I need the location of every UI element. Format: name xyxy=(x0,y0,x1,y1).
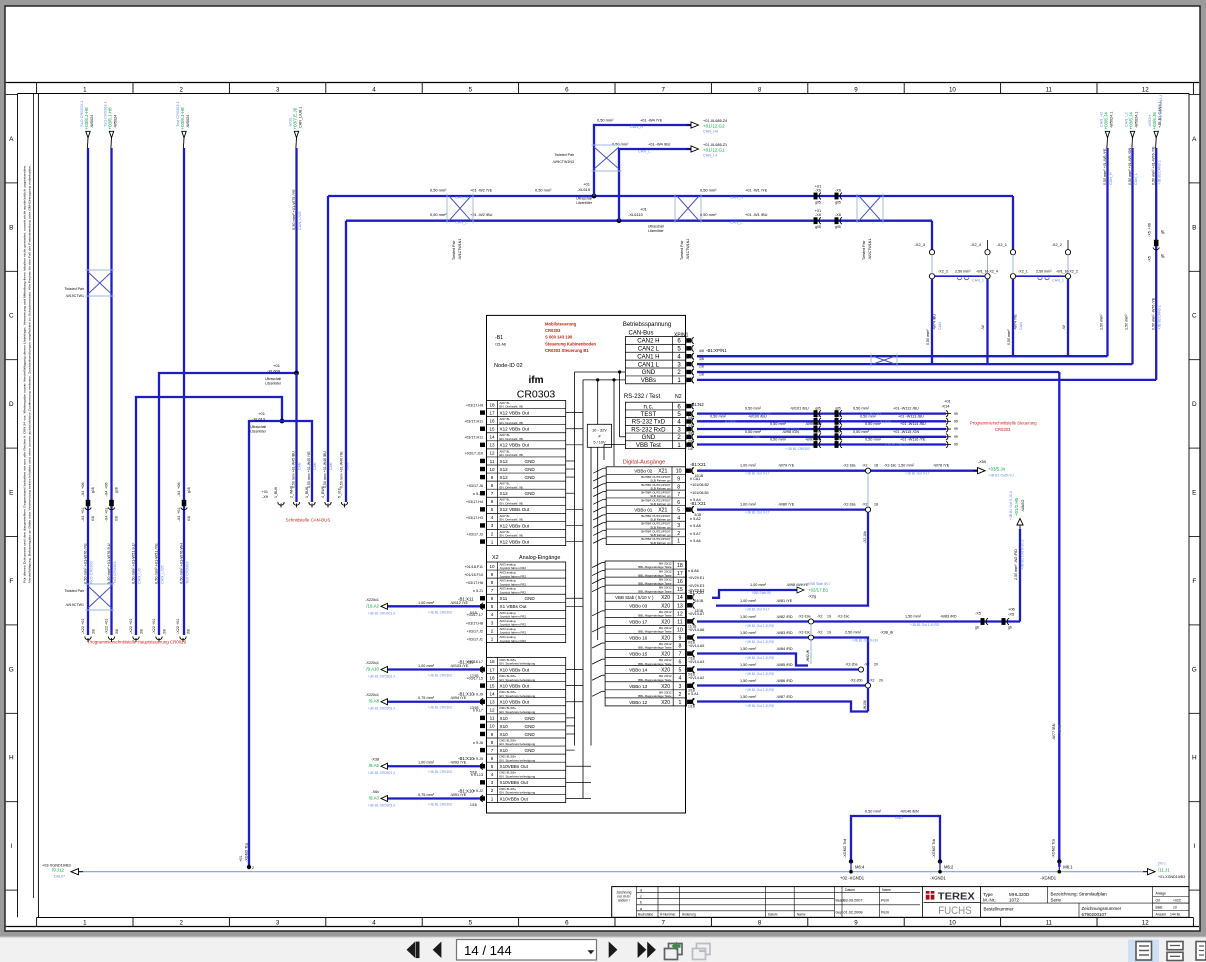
svg-text:5/1B: 5/1B xyxy=(470,771,478,775)
svg-text:I: I xyxy=(1193,843,1195,850)
svg-text:-X5: -X5 xyxy=(975,612,981,616)
svg-text:1072: 1072 xyxy=(1009,897,1020,902)
svg-text:+01 -W4 /BU: +01 -W4 /BU xyxy=(648,142,671,147)
svg-text:0,50 mm² -W76 /YE: 0,50 mm² -W76 /YE xyxy=(1152,297,1156,330)
svg-text:8: 8 xyxy=(491,740,494,745)
svg-text:+03/17.J3: +03/17.J3 xyxy=(467,532,483,536)
svg-text:2: 2 xyxy=(491,628,494,633)
svg-text:4: 4 xyxy=(491,515,494,520)
svg-text:+01: +01 xyxy=(152,619,156,625)
svg-text:/19.A2: /19.A2 xyxy=(366,603,379,608)
svg-text:+01/2.H5: +01/2.H5 xyxy=(1014,497,1019,516)
svg-text:+03/17.H8: +03/17.H8 xyxy=(466,621,483,625)
svg-text:X10 VBBs Out: X10 VBBs Out xyxy=(500,684,530,689)
svg-text:BBL Magnetanlage Taste: BBL Magnetanlage Taste xyxy=(638,646,672,650)
svg-text:CAN: CAN xyxy=(1019,322,1023,330)
svg-text:-X4: -X4 xyxy=(105,491,109,497)
svg-text:15: 15 xyxy=(489,683,495,688)
svg-text:+0V14.A3: +0V14.A3 xyxy=(688,660,704,664)
svg-text:+06: +06 xyxy=(81,483,85,489)
svg-text:X20: X20 xyxy=(661,635,670,641)
svg-text:EN. Drehzahl. I/B.: EN. Drehzahl. I/B. xyxy=(500,534,524,538)
svg-text:1,50 mm²: 1,50 mm² xyxy=(740,695,757,699)
svg-text:14/1B: 14/1B xyxy=(695,599,704,603)
svg-text:CAN_L: CAN_L xyxy=(730,220,743,225)
svg-text:-W5024: -W5024 xyxy=(186,115,190,128)
svg-text:CR0303: CR0303 xyxy=(545,328,561,333)
svg-text:FUCHS: FUCHS xyxy=(938,905,972,917)
svg-text:I: I xyxy=(10,843,12,850)
svg-text:EN. Drehzahl. I/B.: EN. Drehzahl. I/B. xyxy=(500,453,524,457)
svg-text:99: 99 xyxy=(954,420,958,424)
svg-text:17: 17 xyxy=(489,667,495,672)
svg-text:4: 4 xyxy=(678,676,681,682)
svg-text:0,50 mm² +01-W76 /YE: 0,50 mm² +01-W76 /YE xyxy=(83,543,88,584)
svg-text:Anzahl: Anzahl xyxy=(1156,912,1167,916)
svg-text:-W81 /YE: -W81 /YE xyxy=(776,599,793,603)
svg-text:4: 4 xyxy=(491,612,494,617)
svg-text:/9.A3: /9.A3 xyxy=(369,795,380,800)
svg-text:[X0.]: [X0.] xyxy=(1158,862,1165,866)
svg-text:1: 1 xyxy=(677,539,680,545)
svg-text:B: B xyxy=(1192,224,1196,231)
svg-text:+0V29.E3: +0V29.E3 xyxy=(688,589,704,593)
svg-text:+03/17.J2: +03/17.J2 xyxy=(467,629,483,633)
svg-text:10: 10 xyxy=(1173,906,1177,910)
svg-text:VBBo 14: VBBo 14 xyxy=(629,668,648,673)
svg-text:g6: g6 xyxy=(1161,230,1165,234)
svg-text:Ultraschall: Ultraschall xyxy=(265,377,281,381)
svg-text:F: F xyxy=(1192,578,1196,585)
svg-text:C: C xyxy=(9,313,14,320)
svg-text:Für dieses Dokument und den da: Für dieses Dokument und den dargestellte… xyxy=(23,165,27,583)
svg-text:0,50 mm² +01-W45 /BU: 0,50 mm² +01-W45 /BU xyxy=(292,451,296,488)
svg-text:1,50 mm²: 1,50 mm² xyxy=(898,464,915,468)
svg-text:1,00 mm²: 1,00 mm² xyxy=(418,601,435,605)
svg-text:3/8: 3/8 xyxy=(163,629,167,634)
svg-text:-XGND1: -XGND1 xyxy=(1040,876,1056,881)
svg-text:D: D xyxy=(9,401,14,408)
svg-text:0,50 mm²: 0,50 mm² xyxy=(926,329,930,345)
svg-text:7: 7 xyxy=(491,588,494,593)
svg-text:1,50 mm²: 1,50 mm² xyxy=(740,615,757,619)
svg-text:EN. Drehzahl. I/B.: EN. Drehzahl. I/B. xyxy=(500,421,524,425)
svg-text:1/1B: 1/1B xyxy=(470,803,478,807)
svg-text:b: b xyxy=(640,901,642,905)
svg-text:9: 9 xyxy=(491,572,494,577)
svg-text:X20: X20 xyxy=(661,619,670,625)
svg-text:+03/17.H3: +03/17.H3 xyxy=(466,516,483,520)
svg-text:X12 VBBs Out: X12 VBBs Out xyxy=(500,443,530,448)
svg-text:5 / 10V: 5 / 10V xyxy=(593,440,606,445)
svg-text:2: 2 xyxy=(179,87,183,94)
svg-text:1: 1 xyxy=(678,700,681,706)
svg-text:18: 18 xyxy=(874,503,878,507)
svg-text:+0V29.E3: +0V29.E3 xyxy=(688,584,704,588)
svg-text:-X6: -X6 xyxy=(835,189,841,193)
svg-text:BBL Magnetanlage Taste: BBL Magnetanlage Taste xyxy=(638,662,672,666)
svg-text:M.-Nr.:: M.-Nr.: xyxy=(983,897,997,902)
svg-text:-W74 /BU: -W74 /BU xyxy=(933,314,937,330)
svg-text:d: d xyxy=(640,889,642,893)
svg-text:2,50 mm²: 2,50 mm² xyxy=(1036,270,1052,274)
svg-text:EN. Stoerkreis befestigung: EN. Stoerkreis befestigung xyxy=(500,710,536,714)
svg-text:g6: g6 xyxy=(975,626,979,630)
svg-text:-W112 /YE: -W112 /YE xyxy=(450,601,469,605)
svg-text:B1 TEST: B1 TEST xyxy=(786,427,799,431)
svg-text:g08: g08 xyxy=(91,487,95,493)
svg-text:X12 VBBs Out: X12 VBBs Out xyxy=(500,523,530,528)
svg-text:+03/17.H4: +03/17.H4 xyxy=(466,500,483,504)
svg-text:0,50 mm² +01-W46 /YE: 0,50 mm² +01-W46 /YE xyxy=(340,451,344,488)
svg-text:GND: GND xyxy=(525,459,536,464)
svg-text:a: a xyxy=(640,907,642,911)
svg-text:VBB Test: VBB Test xyxy=(636,442,661,449)
svg-text:2: 2 xyxy=(677,531,680,537)
svg-text:9: 9 xyxy=(678,635,681,641)
svg-text:0,50 mm² +01-W45 /YE: 0,50 mm² +01-W45 /YE xyxy=(307,451,311,488)
svg-text:Ultraschall: Ultraschall xyxy=(576,197,592,201)
svg-text:/9.A5: /9.A5 xyxy=(369,763,380,768)
svg-text:+03/6.J-H8: +03/6.J-H8 xyxy=(84,107,89,130)
svg-text:Anlage: Anlage xyxy=(1156,892,1167,896)
svg-text:16: 16 xyxy=(489,418,495,423)
svg-text:1,00 mm²: 1,00 mm² xyxy=(418,664,435,668)
svg-text:-X2-18b: -X2-18b xyxy=(863,531,867,543)
svg-text:3/8: 3/8 xyxy=(699,357,704,361)
svg-text:7: 7 xyxy=(491,748,494,753)
svg-text:99: 99 xyxy=(954,412,958,416)
svg-text:CAN_1: CAN_1 xyxy=(1052,279,1064,283)
svg-text:144 Bl.: 144 Bl. xyxy=(1170,912,1181,916)
svg-text:10: 10 xyxy=(677,627,683,633)
svg-text:5: 5 xyxy=(678,668,681,674)
svg-text:0,50 mm²: 0,50 mm² xyxy=(710,414,727,418)
svg-text:12: 12 xyxy=(489,451,495,456)
svg-text:n 8.A6: n 8.A6 xyxy=(688,569,699,573)
svg-text:Petri: Petri xyxy=(881,899,889,903)
svg-text:-X22: -X22 xyxy=(81,626,85,634)
svg-text:-X4: -X4 xyxy=(81,516,85,522)
svg-text:B1 TxD: B1 TxD xyxy=(760,412,772,416)
svg-text:+03/6.J-H8: +03/6.J-H8 xyxy=(107,107,112,130)
svg-text:G: G xyxy=(9,666,14,673)
svg-text:0,50 mm²: 0,50 mm² xyxy=(853,407,870,411)
svg-text:3: 3 xyxy=(678,684,681,690)
svg-text:-W5024: -W5024 xyxy=(90,115,94,128)
svg-text:13: 13 xyxy=(677,603,683,609)
svg-text:2: 2 xyxy=(491,531,494,536)
svg-text:5: 5 xyxy=(491,604,494,609)
svg-text:g05: g05 xyxy=(835,414,841,418)
svg-text:Ä-Nummer: Ä-Nummer xyxy=(660,913,676,917)
svg-text:Schnittstelle CAN-BUS: Schnittstelle CAN-BUS xyxy=(286,518,331,523)
svg-text:GND: GND xyxy=(525,596,536,601)
svg-text:1,00 mm²: 1,00 mm² xyxy=(740,464,757,468)
svg-text:B1 RxD: B1 RxD xyxy=(880,420,892,424)
svg-text:+JB B1 Out 1-8 /RD: +JB B1 Out 1-8 /RD xyxy=(745,688,775,692)
svg-text:3: 3 xyxy=(276,87,280,94)
svg-text:DAL07: DAL07 xyxy=(54,875,65,879)
svg-text:-X2-18c: -X2-18c xyxy=(884,464,897,468)
svg-text:14: 14 xyxy=(677,595,683,601)
svg-text:1: 1 xyxy=(83,920,87,927)
svg-text:+01: +01 xyxy=(176,619,180,625)
svg-text:-X2-19c: -X2-19c xyxy=(837,615,850,619)
svg-text:C: C xyxy=(1192,313,1197,320)
svg-text:+JB B1 Out 9-17: +JB B1 Out 9-17 xyxy=(905,472,930,476)
svg-text:+JB B1CAN3.1: +JB B1CAN3.1 xyxy=(1158,305,1162,330)
svg-text:+01: +01 xyxy=(177,508,181,514)
svg-text:+01 -W1 /YE: +01 -W1 /YE xyxy=(745,188,768,193)
svg-text:8: 8 xyxy=(677,484,680,490)
svg-text:+JB B1 CR0303: +JB B1 CR0303 xyxy=(428,706,452,710)
svg-text:10: 10 xyxy=(676,469,682,475)
svg-text:+JB B1 Out 9-17: +JB B1 Out 9-17 xyxy=(745,608,770,612)
svg-text:n 5.J1: n 5.J1 xyxy=(473,492,483,496)
svg-text:-B1:X10: -B1:X10 xyxy=(458,788,474,793)
svg-text:0,50 mm² +01-W5 /GN: 0,50 mm² +01-W5 /GN xyxy=(1128,147,1132,185)
svg-text:1,50 mm²: 1,50 mm² xyxy=(1125,314,1129,330)
svg-text:3: 3 xyxy=(491,620,494,625)
svg-text:RxD CR0303: RxD CR0303 xyxy=(89,561,94,584)
svg-text:Twisted Pair: Twisted Pair xyxy=(452,240,456,260)
svg-text:+01-XL685.Z4: +01-XL685.Z4 xyxy=(703,119,727,123)
svg-text:-W1CTW1N1: -W1CTW1N1 xyxy=(458,239,462,260)
svg-text:H: H xyxy=(9,755,14,762)
svg-text:n 9.J6: n 9.J6 xyxy=(473,741,483,745)
svg-text:-W: -W xyxy=(981,325,985,330)
svg-text:CAN: CAN xyxy=(938,322,942,330)
svg-text:X12: X12 xyxy=(500,491,509,496)
svg-text:+03/17.H9: +03/17.H9 xyxy=(466,403,483,407)
svg-text:+01/12.G2: +01/12.G2 xyxy=(703,124,725,129)
svg-text:99: 99 xyxy=(954,443,958,447)
svg-text:18: 18 xyxy=(874,464,878,468)
svg-text:g08: g08 xyxy=(115,487,119,493)
svg-text:+JB B1 CR0303: +JB B1 CR0303 xyxy=(428,770,452,774)
svg-text:Joystick fahren FR2: Joystick fahren FR2 xyxy=(500,639,527,643)
svg-text:+01: +01 xyxy=(273,363,281,368)
svg-text:-XGND Tcd: -XGND Tcd xyxy=(843,839,847,858)
svg-text:VBBo 15: VBBo 15 xyxy=(629,652,648,657)
svg-text:14: 14 xyxy=(489,435,495,440)
svg-text:VBB Stab 5V.I: VBB Stab 5V.I xyxy=(808,582,830,586)
svg-text:+01/18.F11: +01/18.F11 xyxy=(465,565,484,569)
svg-text:-W94 /YE: -W94 /YE xyxy=(450,696,467,700)
svg-text:0,50 mm² +01-W75 /YE: 0,50 mm² +01-W75 /YE xyxy=(291,189,296,230)
svg-text:13: 13 xyxy=(489,443,495,448)
svg-text:3/8: 3/8 xyxy=(140,629,144,634)
svg-text:1,50 mm²: 1,50 mm² xyxy=(1100,314,1104,330)
svg-text:-B1: -B1 xyxy=(495,335,503,341)
svg-text:CR0303: CR0303 xyxy=(995,427,1011,432)
svg-text:XP/N1: XP/N1 xyxy=(674,332,689,338)
svg-text:-X55: -X55 xyxy=(978,460,986,464)
svg-text:-X4: -X4 xyxy=(177,491,181,497)
svg-text:1: 1 xyxy=(491,539,494,544)
svg-text:0,50 mm²: 0,50 mm² xyxy=(597,118,614,123)
svg-text:+06: +06 xyxy=(105,483,109,489)
svg-text:5: 5 xyxy=(677,508,680,514)
svg-text:EN. Drehzahl. I/B.: EN. Drehzahl. I/B. xyxy=(500,518,524,522)
svg-text:+JB B1 Out 6-10.2: +JB B1 Out 6-10.2 xyxy=(1021,540,1025,570)
svg-text:-X2_3: -X2_3 xyxy=(938,270,948,274)
svg-text:-X2_3: -X2_3 xyxy=(914,242,925,247)
svg-text:+03/6.J4: +03/6.J4 xyxy=(1103,112,1108,130)
svg-text:-X22: -X22 xyxy=(129,626,133,634)
svg-text:+03/17.J10: +03/17.J10 xyxy=(465,452,483,456)
svg-text:3/8: 3/8 xyxy=(92,629,96,634)
svg-text:3: 3 xyxy=(491,780,494,785)
svg-text:EN. Stoerkreis befestigung: EN. Stoerkreis befestigung xyxy=(500,774,536,778)
svg-text:n 5.J1: n 5.J1 xyxy=(473,589,483,593)
svg-text:CAN_1: CAN_1 xyxy=(972,279,984,283)
svg-text:VBBo 01: VBBo 01 xyxy=(634,508,653,513)
svg-text:-X2-19c: -X2-19c xyxy=(798,631,811,635)
svg-text:Type: Type xyxy=(983,892,993,897)
svg-text:g6: g6 xyxy=(1161,254,1165,258)
svg-text:Twisted Pair: Twisted Pair xyxy=(680,240,684,260)
svg-text:-W1_6r-X2_4: -W1_6r-X2_4 xyxy=(976,270,998,274)
svg-text:0,50 mm²: 0,50 mm² xyxy=(700,188,717,193)
svg-text:+06: +06 xyxy=(177,483,181,489)
svg-text:Twisted Pair: Twisted Pair xyxy=(554,153,574,157)
svg-text:-W80 /YE: -W80 /YE xyxy=(778,503,795,507)
svg-text:1,50 mm²: 1,50 mm² xyxy=(740,631,757,635)
svg-text:2: 2 xyxy=(491,788,494,793)
svg-text:1,00 mm²: 1,00 mm² xyxy=(740,599,757,603)
svg-text:-X220c1: -X220c1 xyxy=(365,598,379,602)
svg-text:-X4: -X4 xyxy=(105,516,109,522)
svg-text:8: 8 xyxy=(678,644,681,650)
svg-text:5: 5 xyxy=(491,507,494,512)
svg-text:g6: g6 xyxy=(1008,626,1012,630)
svg-text:12: 12 xyxy=(1142,920,1149,927)
svg-text:X21: X21 xyxy=(658,508,667,514)
svg-text:-X2_1: -X2_1 xyxy=(996,242,1007,247)
svg-text:0,50 mm²: 0,50 mm² xyxy=(1007,329,1011,345)
svg-text:+01/18.F10: +01/18.F10 xyxy=(464,573,483,577)
svg-text:CAN: CAN xyxy=(313,462,317,470)
svg-text:CAN_H: CAN_H xyxy=(455,195,468,200)
svg-text:+01 -W2 /YE: +01 -W2 /YE xyxy=(470,188,493,193)
svg-text:GND: GND xyxy=(642,434,656,441)
svg-text:EN. Stoerkreis befestigung: EN. Stoerkreis befestigung xyxy=(500,678,536,682)
svg-text:13: 13 xyxy=(489,700,495,705)
svg-text:+01 -W114 /BU: +01 -W114 /BU xyxy=(900,422,926,426)
svg-text:-X6: -X6 xyxy=(815,189,821,193)
svg-text:t08: t08 xyxy=(115,516,119,521)
svg-text:BBL Magnetanlage Taste: BBL Magnetanlage Taste xyxy=(638,694,672,698)
svg-text:10: 10 xyxy=(949,920,956,927)
svg-text:-X22: -X22 xyxy=(176,626,180,634)
svg-text:11: 11 xyxy=(490,716,495,721)
svg-text:CAN: CAN xyxy=(329,462,333,470)
svg-text:9: 9 xyxy=(491,732,494,737)
svg-text:g05: g05 xyxy=(835,406,841,410)
svg-text:g05: g05 xyxy=(815,201,821,205)
svg-text:CAN1 H: CAN1 H xyxy=(637,353,659,360)
svg-text:+01: +01 xyxy=(129,619,133,625)
svg-text:M6:4: M6:4 xyxy=(855,865,865,870)
svg-text:7: 7 xyxy=(661,920,665,927)
svg-text:18: 18 xyxy=(489,402,495,407)
svg-text:9: 9 xyxy=(677,476,680,482)
svg-text:-XGND Tcb: -XGND Tcb xyxy=(932,839,936,858)
svg-text:19: 19 xyxy=(827,615,831,619)
svg-text:+0V29.E1: +0V29.E1 xyxy=(688,576,704,580)
svg-text:-X2-19a: -X2-19a xyxy=(798,615,811,619)
svg-text:+01 -W112 /BU: +01 -W112 /BU xyxy=(893,407,919,411)
svg-text:4: 4 xyxy=(491,772,494,777)
svg-text:Litzenlöter: Litzenlöter xyxy=(250,430,267,434)
svg-text:B1 TxD: B1 TxD xyxy=(870,412,882,416)
svg-text:-W85 /RD: -W85 /RD xyxy=(776,663,793,667)
svg-text:VBBo 16: VBBo 16 xyxy=(629,635,648,640)
svg-text:D: D xyxy=(1192,401,1197,408)
svg-text:BBL Magnetanlage Taste: BBL Magnetanlage Taste xyxy=(638,630,672,634)
svg-text:-W78 /YE: -W78 /YE xyxy=(933,464,950,468)
svg-text:SLB Fahren gn: SLB Fahren gn xyxy=(650,502,671,506)
svg-text:g05: g05 xyxy=(835,225,841,229)
svg-text:+06: +06 xyxy=(1148,223,1152,229)
svg-text:1: 1 xyxy=(491,796,494,801)
svg-text:+03/7.E.J6: +03/7.E.J6 xyxy=(292,107,297,129)
svg-text:EN. Drehzahl. I/B.: EN. Drehzahl. I/B. xyxy=(500,485,524,489)
svg-text:X21: X21 xyxy=(658,469,667,475)
svg-text:7: 7 xyxy=(661,87,665,94)
svg-text:RS-232 RxD: RS-232 RxD xyxy=(631,426,666,433)
svg-text:2/8: 2/8 xyxy=(699,365,704,369)
svg-text:n 9.J2: n 9.J2 xyxy=(473,789,483,793)
svg-text:1,50 mm²: 1,50 mm² xyxy=(740,647,757,651)
svg-text:0,50 mm²: 0,50 mm² xyxy=(700,212,717,217)
svg-text:0,50 mm² +01-W76 /YE: 0,50 mm² +01-W76 /YE xyxy=(1152,146,1156,185)
svg-text:+01 -W116 /YE: +01 -W116 /YE xyxy=(900,438,926,442)
svg-text:5: 5 xyxy=(469,87,473,94)
svg-text:-B1:X10: -B1:X10 xyxy=(458,692,474,697)
svg-text:-W97 /YE: -W97 /YE xyxy=(805,438,822,442)
svg-text:-W5024.1: -W5024.1 xyxy=(1134,112,1138,128)
svg-text:-X4: -X4 xyxy=(177,516,181,522)
svg-text:g05: g05 xyxy=(835,437,841,441)
svg-text:EN. Drehzahl. I/B.: EN. Drehzahl. I/B. xyxy=(500,405,524,409)
svg-text:-X2_4: -X2_4 xyxy=(970,242,981,247)
svg-text:Programmierschnittstelle Steue: Programmierschnittstelle Steuerung xyxy=(970,421,1037,426)
svg-text:+02/17.B1: +02/17.B1 xyxy=(808,588,829,593)
svg-text:CAN_L/U8.1: CAN_L/U8.1 xyxy=(298,107,302,128)
svg-text:X20: X20 xyxy=(661,652,670,658)
svg-text:GND: GND xyxy=(525,475,536,480)
svg-text:+03/17.H11: +03/17.H11 xyxy=(464,419,483,423)
svg-text:+JB B1 CAN3.1: +JB B1 CAN3.1 xyxy=(1158,95,1163,122)
svg-text:-X2-20b: -X2-20b xyxy=(850,679,863,683)
svg-text:-B1:X11: -B1:X11 xyxy=(458,596,474,601)
svg-text:5/1B: 5/1B xyxy=(470,611,478,615)
svg-text:-W: -W xyxy=(1062,325,1066,330)
svg-text:-XGND Tca: -XGND Tca xyxy=(1051,838,1055,858)
svg-text:X12 VBBs Out: X12 VBBs Out xyxy=(500,539,530,544)
svg-text:17: 17 xyxy=(489,410,495,415)
svg-text:GND: GND xyxy=(525,748,536,753)
svg-text:-XL613: -XL613 xyxy=(252,417,266,422)
svg-text:A: A xyxy=(9,136,14,143)
svg-text:B: B xyxy=(9,224,13,231)
svg-text:+03/6.J6: +03/6.J6 xyxy=(1152,112,1157,130)
svg-text:+03/6.J-H8: +03/6.J-H8 xyxy=(180,107,185,130)
svg-text:-XGND Tca: -XGND Tca xyxy=(245,842,249,862)
